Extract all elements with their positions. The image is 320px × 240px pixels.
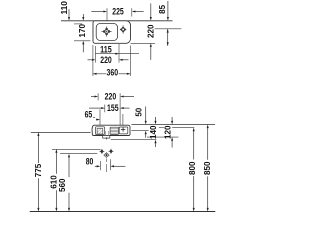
dim label 225 — [112, 8, 124, 16]
ext line basin right edge up — [131, 8, 133, 16]
dim 800 line lower — [193, 176, 195, 208]
front view siphon hatching — [97, 129, 103, 134]
dim 85 left arrowhead — [150, 17, 152, 21]
dim 560 top arrowhead — [68, 154, 70, 158]
rim height reference line to 850 — [131, 124, 215, 126]
svg-text:65: 65 — [85, 109, 93, 119]
front view drain boss — [103, 136, 110, 139]
svg-text:560: 560 — [58, 178, 67, 192]
dim 80 right arrowhead — [110, 165, 114, 167]
left fixing bolt symbol — [99, 149, 104, 154]
dim 610 line lower — [55, 190, 57, 208]
dim 800 bottom arrowhead — [193, 208, 195, 212]
dim 610 line upper — [55, 153, 57, 174]
dim 85 left line — [150, 3, 152, 17]
ext line tap centre to rim — [122, 114, 124, 125]
ext line basin bottom right — [131, 42, 156, 44]
dim 225 left arrowhead — [103, 10, 107, 12]
dim 360 right arrowhead — [127, 73, 131, 75]
dim 155 right tail — [121, 107, 129, 109]
dim 610 bottom arrowhead — [55, 208, 57, 212]
dim 80 left arrowhead — [97, 165, 101, 167]
dim 110 arrowhead — [68, 17, 70, 21]
dim 775 line lower — [37, 178, 39, 208]
dim 155 left tail — [89, 107, 101, 109]
dim 50 upper line — [145, 107, 147, 122]
dim 50 upper arrowhead — [145, 121, 147, 125]
svg-text:360: 360 — [107, 68, 119, 78]
dim 115 arrowhead — [115, 53, 119, 55]
dim 775 bottom arrowhead — [37, 208, 39, 212]
dim 115 line with right tail — [95, 53, 139, 55]
front view overflow slats — [111, 129, 119, 133]
rim right stub lower (50 bottom ref) — [131, 130, 148, 132]
drain direction arrowhead — [106, 138, 108, 140]
dim 120 lower tail — [171, 141, 173, 148]
dim label 220 front — [104, 93, 116, 101]
dim 170 lower line — [82, 44, 84, 52]
svg-text:775: 775 — [34, 163, 43, 177]
dim 225 left tail — [91, 11, 104, 13]
ext line bowl left down — [94, 46, 96, 63]
dim 800 line upper — [193, 131, 195, 160]
ext line front right — [119, 93, 121, 125]
dim 220f right arrowhead — [120, 95, 124, 97]
800 reference line seg1 — [159, 127, 164, 129]
dim 140 lower arrowhead — [154, 140, 156, 144]
800 reference line seg2 — [172, 127, 194, 129]
dim 220 right dim line — [167, 29, 169, 46]
front view basin body outline — [92, 125, 130, 135]
dim 560 line upper — [68, 157, 70, 177]
top view inner bowl outline — [96, 23, 117, 40]
dim 225 right arrowhead — [132, 10, 136, 12]
dim 225 right tail — [135, 11, 144, 13]
siphon height line 610 ref — [52, 148, 101, 150]
drain level reference line 140 ref — [111, 139, 157, 141]
dim 50 lower tail — [145, 134, 147, 138]
dim label 360 — [106, 69, 118, 77]
dim label 220 bottom — [100, 56, 112, 64]
dim 560 bottom arrowhead — [68, 208, 70, 212]
dim 65 arrowhead — [96, 119, 100, 121]
underside reference line 120 ref — [147, 136, 179, 138]
svg-text:140: 140 — [149, 125, 158, 139]
dim 850 line upper — [207, 128, 209, 160]
dim 140 upper line — [155, 117, 157, 121]
right fixing bolt symbol — [108, 149, 113, 154]
dim 775 line upper — [37, 136, 39, 163]
dim 65 arrow tail — [95, 119, 98, 121]
svg-text:80: 80 — [86, 156, 94, 166]
svg-text:610: 610 — [49, 175, 58, 189]
front view tap deck box — [119, 127, 128, 134]
floor line — [30, 211, 216, 213]
ext line basin right down — [129, 46, 131, 77]
svg-text:170: 170 — [78, 24, 87, 38]
svg-text:50: 50 — [135, 107, 144, 116]
front edge height line 775 ref — [31, 131, 91, 133]
dim 220f right tail — [121, 96, 134, 98]
dim 110 arrow line — [68, 9, 70, 17]
dim 85 right arrowhead — [167, 17, 169, 21]
dim 560 line lower — [68, 193, 70, 208]
dim 220b right arrowhead — [119, 59, 123, 61]
drain centreline upper seg — [105, 159, 107, 162]
fixing height line 560 ref — [60, 153, 97, 155]
dim 220r lower tail — [150, 47, 152, 60]
front view siphon inner box — [97, 129, 103, 135]
ext line 80 right — [109, 159, 111, 170]
dim 155 right arrowhead — [120, 107, 124, 109]
dim 610 top arrowhead — [55, 149, 57, 153]
dim 360 line — [93, 73, 130, 75]
svg-text:120: 120 — [163, 125, 172, 139]
dim 170 lower arrowhead — [82, 41, 84, 45]
dim label 155 — [107, 104, 119, 112]
front view overflow box — [110, 127, 119, 134]
svg-text:110: 110 — [60, 0, 69, 14]
ext line drain centre up — [106, 8, 108, 20]
dim 360 left arrowhead — [93, 73, 97, 75]
svg-text:800: 800 — [188, 161, 197, 175]
svg-text:225: 225 — [112, 6, 124, 16]
ext stub bowl top left — [74, 23, 82, 25]
dim 140 lower tail — [155, 143, 157, 147]
svg-text:115: 115 — [100, 45, 112, 55]
dim 65 underline tick — [93, 117, 95, 119]
front view bowl housing box — [95, 127, 104, 135]
dim 220b left tail — [88, 59, 92, 61]
ext line basin left down — [92, 45, 94, 76]
dim 220f left arrowhead — [95, 95, 99, 97]
dim 120 lower arrowhead — [171, 137, 173, 141]
dim 850 line lower — [207, 176, 209, 208]
front view drain tube walls — [105, 131, 108, 136]
dim 50 lower arrowhead — [145, 131, 147, 135]
dim 170 upper line — [82, 14, 84, 17]
top view drain symbol — [101, 26, 111, 36]
dim 220 right down arrowhead — [167, 42, 169, 46]
front view tap hole cross marker — [121, 127, 125, 131]
dim 80 right tail — [114, 165, 125, 167]
svg-text:850: 850 — [203, 161, 212, 175]
ext line 220f left — [97, 93, 99, 100]
svg-text:155: 155 — [107, 103, 119, 113]
dim 140 upper arrowhead — [154, 121, 156, 125]
dim 220r lower arrowhead — [150, 43, 152, 47]
dim 220b right tail — [122, 59, 128, 61]
dim 220f left tail — [91, 96, 95, 98]
svg-text:220: 220 — [105, 91, 117, 101]
dim 800 top arrowhead — [193, 128, 195, 132]
ext line 65 to rim — [99, 109, 101, 125]
top view rear edge long reference line — [61, 20, 173, 22]
svg-text:85: 85 — [158, 4, 167, 13]
ext line 155 left — [104, 105, 106, 113]
ext line bowl bottom left — [74, 40, 90, 42]
drain centreline lower seg — [105, 164, 107, 172]
dim 120 upper arrowhead — [171, 121, 173, 125]
ext line 80 left — [99, 161, 101, 170]
dim 220 right up arrowhead — [167, 29, 169, 33]
dim 120 upper line — [171, 117, 173, 121]
tap centreline extended right — [155, 28, 182, 30]
dim 85 right line — [167, 1, 169, 17]
top view basin outer rim outline — [93, 21, 131, 44]
dim 850 bottom arrowhead — [207, 208, 209, 212]
top view tap hole symbol — [120, 25, 126, 34]
dim 80 left seg — [95, 165, 97, 167]
dim 850 top arrowhead — [207, 125, 209, 129]
dim 220b left arrowhead — [92, 59, 96, 61]
dim 170 upper arrowhead — [82, 17, 84, 21]
ext line bowl right down — [118, 44, 120, 63]
dim 775 top arrowhead — [37, 132, 39, 136]
waste outlet symbol — [103, 152, 109, 158]
svg-text:220: 220 — [146, 24, 155, 38]
svg-text:220: 220 — [100, 55, 112, 65]
dim 155 left arrowhead — [101, 107, 105, 109]
